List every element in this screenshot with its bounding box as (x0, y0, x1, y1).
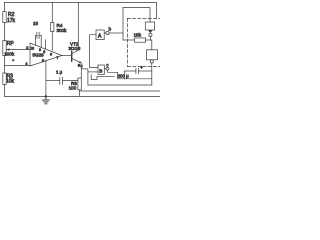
wire B box lower lead (88, 71, 98, 73)
ammeter A box (96, 30, 104, 40)
label pin 7 (57, 56, 59, 60)
label R2 (8, 12, 15, 18)
svg-text:5: 5 (42, 59, 44, 63)
terminal b circle (106, 31, 109, 34)
wire left rail RP to R3 (4, 56, 6, 74)
svg-text:3: 3 (26, 46, 28, 50)
label pin 9 (39, 48, 41, 52)
capacitor C1 15p plates (37, 33, 39, 39)
label 17k (7, 18, 16, 24)
svg-text:100: 100 (69, 86, 77, 91)
wire ammeter left lead down to B box (90, 35, 99, 68)
label + mark near inverting input (12, 58, 15, 63)
contact box2 (147, 50, 158, 60)
svg-text:RP: RP (7, 41, 15, 47)
wire box2 circle down (151, 63, 153, 85)
label pin 8 (43, 50, 45, 54)
label 15k (134, 33, 142, 38)
svg-text:9: 9 (39, 48, 41, 52)
wire left rail R3 to bottom (4, 85, 6, 97)
label R5 (71, 81, 77, 86)
wire vertical at x=123 (122, 8, 124, 40)
capacitor C3 200u plates (136, 68, 139, 73)
wire 15k left lead (123, 39, 135, 41)
svg-text:8: 8 (43, 50, 45, 54)
capacitor C2 1u right lead (63, 79, 78, 81)
label A (98, 33, 102, 39)
svg-text:10k: 10k (6, 79, 15, 85)
svg-text:100k: 100k (4, 52, 15, 57)
label 10k (6, 79, 15, 85)
wire R4 top lead (51, 3, 53, 23)
pin 8 stub (45, 40, 47, 49)
svg-text:1 μ: 1 μ (56, 69, 63, 74)
svg-text:3DG6: 3DG6 (68, 46, 80, 51)
relay armature triangle (148, 30, 152, 33)
label 200u (118, 74, 130, 79)
label 300k (57, 28, 68, 33)
label c (106, 63, 109, 68)
B box (98, 65, 104, 74)
label 100 (69, 86, 77, 91)
svg-text:7: 7 (57, 56, 59, 60)
label RP (7, 41, 15, 47)
svg-text:B: B (99, 68, 102, 73)
terminal circle under relay (149, 33, 152, 36)
wire left rail upper (top rail to R2) (4, 3, 6, 12)
op-amp U1 5G26 triangle (30, 43, 62, 66)
potentiometer RP (3, 41, 6, 56)
label pin 6 (50, 52, 52, 56)
label pin 5 (42, 59, 44, 63)
wire R5 bottom lead (79, 90, 81, 97)
wire left rail R2 to RP (4, 23, 6, 41)
label 15 (33, 21, 39, 26)
wire bottom ground rail (5, 95, 161, 97)
wire op-amp output to transistor base (62, 55, 72, 57)
svg-text:+: + (140, 65, 143, 70)
svg-text:15k: 15k (134, 33, 142, 38)
label pin 4 (25, 62, 27, 66)
capacitor C3 200u right lead (138, 70, 151, 72)
wire R4 bottom lead to pin 6 (51, 32, 53, 51)
capacitor C3 200u left lead (124, 71, 136, 79)
wire terminal b to relay branch (109, 32, 123, 34)
ground (43, 96, 50, 103)
resistor R5 (78, 78, 81, 90)
svg-text:10: 10 (30, 46, 34, 50)
label terminal a (78, 62, 81, 67)
svg-text:15: 15 (33, 21, 39, 26)
terminal c circle (106, 67, 109, 70)
transistor Q1 VT2 base bar (71, 52, 73, 62)
terminal circle under box2 (150, 60, 153, 63)
resistor R4 (51, 23, 54, 32)
label plus polarity (140, 65, 143, 70)
wire top supply rail (5, 2, 157, 4)
label R3 (7, 74, 14, 80)
wire 15k right lead (146, 39, 151, 41)
svg-text:200 μ: 200 μ (118, 74, 130, 79)
terminal a circle (80, 65, 82, 67)
wire stub under B box (91, 75, 114, 80)
label B (99, 68, 102, 73)
capacitor C1 15p right lead (39, 35, 41, 47)
capacitor C1 15p left lead (36, 35, 37, 45)
label 5G26 (33, 53, 45, 58)
transistor Q1 emitter with arrow (72, 58, 82, 78)
relay coil box J1 (145, 22, 154, 30)
capacitor C2 1u plates (60, 77, 63, 84)
wire pin 4 to left rail (5, 65, 31, 67)
label 3DG6 (68, 46, 80, 51)
label 100k (4, 52, 15, 57)
wire pin 5 down (45, 60, 47, 96)
label pin 3 (26, 46, 28, 50)
label pin 10 (30, 46, 34, 50)
wire terminal c to capacitor bus (108, 70, 152, 79)
transistor Q1 collector (72, 3, 79, 54)
wire bus y91 (80, 90, 160, 92)
wire bus y84 (88, 84, 152, 86)
capacitor C2 1u left lead (46, 79, 60, 81)
label 1u (56, 69, 63, 74)
label b (109, 26, 112, 31)
svg-text:17k: 17k (7, 18, 16, 24)
dashed box plug-in unit (127, 18, 159, 66)
label R4 (57, 23, 63, 28)
resistor R6 15k (135, 38, 146, 42)
resistor R2 (3, 12, 6, 23)
wire down to box2 (150, 40, 151, 50)
svg-text:6: 6 (50, 52, 52, 56)
wire circle to 15k node (149, 37, 151, 41)
junction dot ground node (45, 95, 47, 97)
wire ammeter to terminal b (104, 32, 106, 34)
wire top link to relay (123, 8, 150, 22)
svg-text:300k: 300k (57, 28, 68, 33)
wire emitter branch to B box lower lead (81, 69, 88, 85)
wire B box to terminal c (104, 68, 106, 70)
wire right rail (156, 3, 158, 19)
label VT2 (70, 41, 79, 46)
potentiometer RP wiper arrow (6, 48, 30, 50)
resistor R3 (3, 73, 6, 85)
